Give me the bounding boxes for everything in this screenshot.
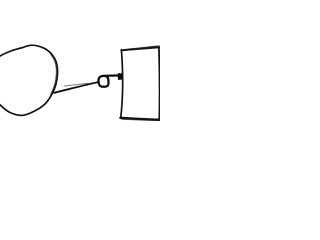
box top edge <box>121 47 159 50</box>
box left edge <box>121 50 123 119</box>
box (large hand-drawn rectangle, clipped at right edge) <box>120 46 160 120</box>
wire (line from circle to loop) <box>54 82 98 93</box>
circle (large hand-drawn ellipse, clipped at left edge) <box>0 45 58 115</box>
wire (loop to box nub) <box>105 74 120 77</box>
box bottom edge <box>120 118 160 120</box>
loop (small hand-drawn knot) <box>98 76 108 87</box>
box right edge <box>158 47 161 119</box>
nub (filled connector on box edge) <box>118 74 122 80</box>
